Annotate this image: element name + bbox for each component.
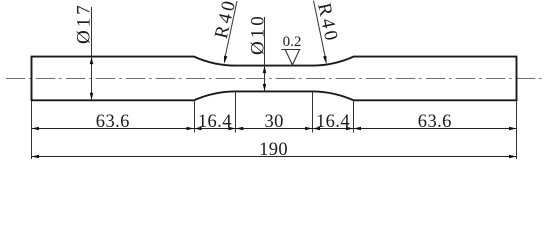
diameter dimension line for O17 (x=91.5) (91, 7, 93, 100)
specimen left end edge (31, 56, 33, 101)
extension line left (x=31.5) (31, 101, 33, 159)
dimension line row 1 (63.6 / 16.4 / 30 / 16.4 / 63.6) (32, 128, 517, 130)
leader arrow R40 left (224, 56, 227, 65)
arrow right tip x=353.5 row1 (346, 127, 354, 131)
leader line R40 right (314, 1, 326, 57)
surface roughness triangle (285, 50, 299, 65)
arrow right tip x=194 row1 (187, 127, 195, 131)
diameter dimension line for O10 (x=264) (264, 17, 266, 91)
dimension line row 2 (190 overall) (32, 156, 517, 158)
extension line right (x=516) (516, 101, 518, 159)
svg-text:30: 30 (264, 112, 283, 132)
svg-text:190: 190 (259, 140, 288, 160)
arrow up tip (91.5,56.6) (90, 57, 94, 65)
arrow left tip x=31.5 row2 (32, 155, 40, 159)
svg-text:Ø10: Ø10 (248, 13, 269, 55)
svg-text:Ø17: Ø17 (74, 2, 95, 44)
arrow right tip x=312.5 row1 (305, 127, 313, 131)
leader line R40 left (225, 1, 237, 57)
arrow up tip (264,65.6) (263, 66, 267, 74)
arrow left tip x=235.8 row1 (236, 127, 244, 131)
arrow down tip (91.5,100.3) (90, 93, 94, 101)
arrow down tip (264,91.4) (263, 84, 267, 92)
extension line x=235.8 (235, 91, 237, 132)
arrow left tip x=31.5 row1 (32, 127, 40, 131)
svg-text:63.6: 63.6 (418, 112, 452, 132)
svg-text:63.6: 63.6 (96, 112, 130, 132)
specimen right end edge (516, 56, 518, 101)
extension line x=194 (194, 100, 196, 132)
specimen outline bottom edge with R40 fillets (32, 91, 517, 100)
arrow right tip x=516 row2 (509, 155, 517, 159)
arrow left tip x=353.5 row1 (354, 127, 362, 131)
leader arrow R40 right (323, 56, 327, 65)
arrow right tip x=235.8 row1 (228, 127, 236, 131)
extension line x=353.5 (353, 100, 355, 132)
arrow left tip x=312.5 row1 (313, 127, 321, 131)
svg-text:16.4: 16.4 (316, 112, 350, 132)
svg-text:0.2: 0.2 (283, 34, 302, 50)
arrow right tip x=516 row1 (509, 127, 517, 131)
svg-text:16.4: 16.4 (198, 112, 232, 132)
extension line x=312.5 (312, 91, 314, 132)
centerline (dash-dot axis) (6, 78, 544, 80)
arrow left tip x=194 row1 (194, 127, 202, 131)
surface roughness symbol bar (281, 49, 300, 51)
specimen outline top edge with R40 fillets (32, 57, 517, 66)
